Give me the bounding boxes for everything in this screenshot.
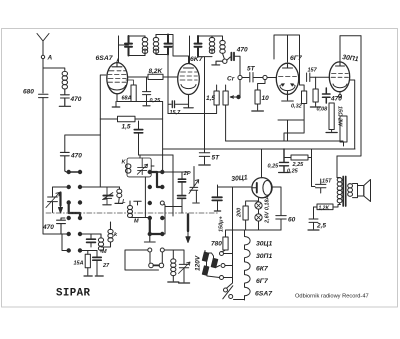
wire to tone cap	[312, 149, 316, 187]
svg-text:1,5: 1,5	[122, 124, 131, 131]
svg-text:6SA7: 6SA7	[255, 291, 273, 298]
dropper resistor 2	[211, 258, 218, 267]
box component right	[340, 116, 347, 146]
right vertical rail 1	[350, 80, 355, 149]
svg-text:30Ц1: 30Ц1	[256, 241, 273, 248]
svg-text:0,25: 0,25	[268, 164, 280, 170]
potentiometer wiper arrow	[230, 95, 240, 98]
heater label 6K7	[256, 266, 269, 273]
wire V3 right down	[288, 35, 305, 91]
selector wires	[224, 187, 233, 287]
capacitor 0.25 V1	[143, 77, 162, 105]
dropper wires	[205, 251, 220, 278]
resistor 200 shunt	[237, 201, 259, 230]
ground resistor 10	[252, 110, 264, 112]
ground 6K7 cathode	[184, 95, 194, 108]
B+ bus y149	[163, 102, 355, 171]
IF transformer 1 capacitor secondary	[165, 35, 172, 55]
resistor 2.25 output	[284, 149, 312, 168]
resistor 0.32	[291, 91, 307, 110]
heater label 30C1	[256, 241, 273, 248]
capacitor 470 grid	[227, 47, 248, 76]
svg-text:,15T: ,15T	[320, 179, 333, 185]
node A	[41, 55, 52, 62]
tube V1 6SA7	[96, 55, 128, 94]
wire rows to osc	[62, 234, 101, 254]
switch matrix left column dots	[67, 170, 83, 253]
switch right row3	[148, 201, 165, 205]
speaker	[353, 180, 371, 202]
wire V4 cathode	[339, 92, 342, 98]
tube V3 6G7	[276, 55, 303, 94]
dropper resistor 1	[202, 252, 209, 261]
svg-text:470: 470	[70, 96, 82, 103]
svg-text:1,2K: 1,2K	[319, 205, 330, 211]
svg-text:60: 60	[288, 217, 296, 224]
IF1 primary rails	[119, 36, 146, 62]
IF transformer 2 primary coil	[209, 36, 214, 53]
IF1 secondary rails	[156, 35, 189, 64]
caption Odbiornik radiowy Record-47	[295, 294, 369, 300]
wire V4 plate top	[339, 36, 341, 62]
switch matrix right dots	[148, 170, 165, 236]
rectifier V5 30C1	[231, 174, 272, 197]
resistor grid 30P1	[313, 77, 328, 112]
output transformer primary	[337, 178, 342, 205]
voltage selector tap 3	[220, 276, 224, 280]
switch wiper thick right bottom	[150, 219, 160, 234]
coil K box	[127, 158, 151, 177]
svg-text:5T: 5T	[212, 155, 221, 162]
switch right row1 link	[152, 171, 160, 173]
brand stamp SIPAR	[56, 288, 91, 300]
svg-text:8,2K: 8,2K	[149, 68, 164, 75]
svg-text:SIPAR: SIPAR	[56, 288, 91, 300]
wire rectifier anode	[218, 186, 252, 188]
tube V3 internals	[279, 63, 297, 91]
mains switch	[223, 286, 233, 299]
dial lamp 2	[255, 209, 262, 230]
padding coil	[117, 187, 127, 205]
label 120V	[195, 255, 202, 271]
resistor 1.5 screen	[100, 116, 162, 130]
capacitor 157 cathode	[168, 101, 189, 116]
svg-text:68A: 68A	[122, 96, 132, 102]
heater chain	[245, 230, 251, 300]
ground 0.25	[143, 105, 150, 107]
ground grid resistor	[310, 106, 320, 108]
capacitor filter input	[212, 185, 224, 232]
wire rectifier output right	[272, 187, 281, 215]
wire row1 right extension	[164, 171, 188, 173]
capacitor 470 bandswitch	[60, 152, 82, 172]
svg-text:30П1: 30П1	[256, 253, 272, 260]
svg-text:2,6V 0,18A: 2,6V 0,18A	[265, 195, 271, 224]
potentiometer body	[223, 85, 228, 105]
wire row2 left	[60, 186, 67, 188]
svg-text:470: 470	[330, 96, 342, 103]
svg-text:30Ц1: 30Ц1	[231, 174, 248, 183]
svg-text:120V: 120V	[195, 255, 202, 271]
wire K box to row4	[144, 177, 146, 218]
svg-text:5T: 5T	[247, 66, 256, 73]
heater label 6G7	[256, 278, 269, 285]
resistor 1.5 det	[168, 85, 226, 141]
tuning gang osc section	[46, 187, 60, 213]
svg-text:Odbiornik radiowy Record-47: Odbiornik radiowy Record-47	[295, 294, 369, 300]
wire x173	[172, 155, 174, 216]
capacitor 60	[276, 216, 296, 230]
shaft arrow 2	[186, 215, 190, 243]
wire row6 to coil K3	[164, 250, 184, 262]
wire V1 cathode bus	[116, 94, 163, 106]
capacitor C2 dark	[134, 121, 142, 155]
resistor 10	[255, 80, 269, 110]
resistor 1.2K	[314, 204, 341, 211]
ground tone cap	[179, 282, 190, 284]
svg-text:2,5: 2,5	[316, 223, 326, 230]
trimmer left	[103, 187, 113, 204]
capacitor 680	[23, 89, 48, 98]
ground 15A	[84, 275, 92, 277]
label lamps	[265, 195, 271, 224]
wire zigzag V3	[278, 104, 304, 142]
svg-text:0,25: 0,25	[287, 169, 299, 175]
coil K3	[171, 259, 176, 281]
resistor 780	[211, 230, 245, 252]
wire V1 grid left	[100, 75, 106, 187]
IF2 coupling rail	[212, 36, 223, 39]
voltage selector tap 2	[221, 264, 225, 268]
svg-text:2P: 2P	[183, 171, 191, 177]
svg-text:2,25: 2,25	[292, 162, 305, 168]
svg-text:27: 27	[102, 263, 110, 269]
svg-text:15,7: 15,7	[170, 110, 182, 116]
svg-text:6Г7: 6Г7	[290, 55, 303, 62]
svg-text:15A: 15A	[74, 261, 84, 267]
svg-text:200: 200	[237, 208, 243, 218]
oscillator coil M	[98, 234, 107, 255]
resistor 68A	[122, 85, 137, 102]
ground 27	[95, 275, 103, 277]
svg-text:6К7: 6К7	[256, 266, 269, 273]
svg-text:470: 470	[70, 153, 82, 160]
wire B+ to transformer	[336, 156, 338, 178]
ground padding coil	[115, 202, 123, 204]
ground 2.5	[308, 229, 319, 231]
ground antenna cap	[59, 98, 70, 106]
AVC feed wire	[167, 55, 169, 114]
wire V1 plate up	[117, 36, 119, 62]
ground grid return	[212, 61, 223, 65]
heater label 6SA7	[255, 291, 273, 298]
wire K box to row1	[151, 165, 154, 167]
top rail V3	[274, 35, 288, 62]
tube V4 internals	[331, 62, 349, 88]
svg-text:150μ+: 150μ+	[219, 216, 225, 232]
output transformer core	[343, 177, 346, 207]
grid terminal circle 6K7	[223, 59, 227, 63]
svg-text:L: L	[122, 199, 126, 205]
wire lamps to heater chain	[245, 229, 282, 231]
resistor 8.2K	[128, 68, 177, 80]
oscillator capacitor dark	[87, 234, 96, 247]
wire row3 right down	[164, 204, 182, 234]
trimmer in K box	[137, 158, 147, 175]
tube V2 6K7	[178, 56, 204, 95]
output transformer secondary	[348, 184, 353, 197]
wire Cr down to wiper	[239, 80, 241, 97]
capacitor 2.5	[309, 207, 326, 230]
resistor 15A	[74, 254, 91, 275]
oscillator coil K2	[101, 222, 118, 247]
switch row1 link	[71, 171, 78, 173]
dial lamp 1	[255, 198, 262, 209]
svg-text:Cr: Cr	[227, 76, 235, 83]
variable capacitor main	[189, 167, 199, 203]
svg-text:0,32: 0,32	[291, 104, 302, 110]
svg-text:6SA7: 6SA7	[96, 55, 114, 62]
wire K box to C2	[139, 155, 141, 158]
capacitor 27	[93, 251, 110, 276]
AVC bus y141	[226, 141, 343, 142]
ground 5T	[199, 164, 210, 166]
dropper resistor 3	[202, 266, 209, 275]
tube V1 internals	[108, 62, 134, 90]
right vertical rail 2	[337, 36, 361, 156]
capacitor 157 coupling	[307, 68, 329, 82]
mains box wires	[125, 250, 162, 270]
ground switch right	[144, 236, 155, 242]
capacitor 2P upper	[178, 171, 190, 213]
terminal circle 2	[263, 75, 277, 79]
svg-text:M: M	[134, 219, 139, 225]
voltage selector tap 1	[220, 252, 224, 256]
heater label 30P1	[256, 253, 272, 260]
switch right hollow row6	[148, 248, 165, 252]
svg-text:k: k	[114, 232, 118, 238]
tube V4 30P1	[329, 54, 359, 92]
svg-text:470: 470	[236, 47, 248, 54]
coil M2 oscillator	[128, 201, 150, 225]
ground 15ohm	[326, 132, 337, 134]
svg-text:1,5: 1,5	[206, 95, 215, 102]
svg-text:M: M	[102, 249, 107, 255]
coil K	[122, 160, 131, 174]
top rail right	[340, 35, 361, 37]
IF transformer 1 secondary coil	[153, 35, 158, 55]
mains plug	[149, 263, 164, 268]
capacitor 0.25 output	[268, 149, 299, 175]
rectifier internals	[252, 170, 272, 195]
wire antenna branch	[43, 68, 65, 71]
ground 0.25 output	[279, 172, 290, 174]
ground variable cap	[193, 202, 200, 204]
IF transformer 1 primary coil	[142, 36, 147, 56]
resistor 15ohm cathode	[329, 103, 343, 132]
ground near coil M2	[134, 201, 141, 205]
capacitor lower	[178, 196, 186, 199]
padder capacitor 470	[42, 218, 65, 234]
wire V3 cathode ground	[282, 91, 294, 101]
variable capacitor tone	[179, 262, 191, 282]
ground trimmer	[103, 204, 111, 206]
svg-text:6Г7: 6Г7	[256, 278, 269, 285]
svg-text:470: 470	[42, 224, 54, 231]
svg-text:0,25: 0,25	[150, 98, 162, 104]
antenna	[37, 34, 49, 56]
wire grid line to switch	[65, 135, 101, 152]
capacitor 5T AVC	[242, 66, 263, 83]
switch wiper thick L left	[69, 203, 80, 219]
tube V2 internals	[180, 68, 198, 89]
ganging dash line	[46, 212, 218, 214]
capacitor 15T tone	[316, 179, 333, 194]
capacitor 470 antenna	[61, 91, 82, 103]
wire row2 bus	[82, 186, 120, 188]
shaft arrow	[59, 193, 63, 214]
svg-text:780: 780	[211, 241, 222, 248]
inductor L1	[62, 71, 67, 91]
wire C2 to coil box	[139, 154, 174, 156]
wire antenna to switch bottom	[43, 98, 67, 234]
svg-text:10: 10	[262, 95, 270, 102]
terminal circle Cr	[227, 75, 242, 82]
IF transformer 2 secondary coil	[220, 39, 225, 60]
wire antenna down	[42, 59, 44, 93]
IF transformer 1 capacitor primary	[125, 36, 132, 56]
wire heater bottom to switch	[234, 296, 245, 300]
wire V2 plate up	[189, 36, 191, 64]
switch wiper thick right top	[151, 172, 160, 187]
svg-text:157: 157	[308, 68, 318, 74]
capacitor 470 V4	[323, 88, 343, 103]
svg-text:680: 680	[23, 89, 34, 96]
IF transformer 2 capacitor primary	[195, 36, 202, 57]
wire rectifier to bus	[261, 149, 263, 170]
svg-text:30П1: 30П1	[342, 54, 359, 63]
ground V1 cathode	[112, 106, 119, 108]
ground coil K3	[168, 281, 179, 283]
svg-text:A: A	[47, 55, 53, 62]
IF2 primary rails	[198, 36, 212, 99]
capacitor 5T IF	[199, 99, 220, 164]
